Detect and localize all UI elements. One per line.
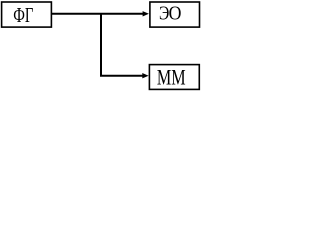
wire to ММ: [100, 75, 143, 77]
arrowhead into ММ: [142, 73, 148, 78]
block ММ: [149, 65, 199, 90]
block ЭО: [150, 2, 200, 27]
svg-text:ММ: ММ: [157, 66, 186, 90]
wire down from junction on top wire: [100, 14, 102, 76]
svg-text:ФГ: ФГ: [13, 3, 33, 26]
wire ФГ to ЭО: [52, 13, 144, 15]
svg-text:О: О: [169, 3, 182, 25]
block ФГ: [2, 2, 52, 27]
arrowhead into ЭО: [143, 11, 149, 16]
